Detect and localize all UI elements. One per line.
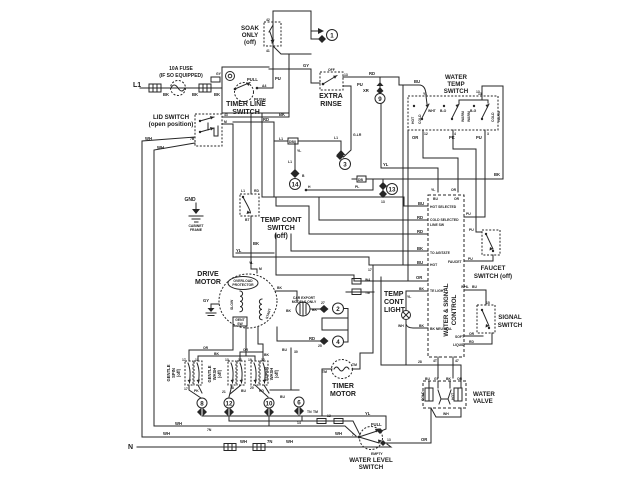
svg-text:BU: BU bbox=[417, 260, 423, 265]
wire OR to valve bbox=[386, 408, 431, 443]
svg-text:RD: RD bbox=[417, 215, 423, 220]
wire RD staircase 2 bbox=[319, 197, 428, 220]
wire BK lid to soak vertical bbox=[222, 54, 289, 117]
svg-text:BK: BK bbox=[419, 287, 424, 291]
svg-text:WHL: WHL bbox=[461, 285, 469, 289]
svg-text:14: 14 bbox=[292, 182, 299, 189]
svg-text:OR: OR bbox=[421, 437, 427, 442]
node 14 connector bbox=[288, 141, 305, 190]
gent sw contact bbox=[233, 317, 247, 326]
svg-text:VALVE: VALVE bbox=[473, 398, 493, 405]
connector plug 1 bbox=[311, 28, 338, 43]
svg-text:BU: BU bbox=[414, 79, 420, 84]
wire PU from terminal 3 bbox=[464, 130, 485, 217]
connector CO-1 bbox=[149, 84, 161, 92]
svg-text:OFF: OFF bbox=[328, 68, 335, 72]
wire WH inner bus bbox=[154, 426, 356, 436]
svg-text:HOT: HOT bbox=[430, 263, 438, 267]
svg-text:PU: PU bbox=[275, 76, 281, 81]
svg-text:(open position): (open position) bbox=[149, 121, 194, 128]
wire PK from terminal 4 bbox=[453, 130, 476, 232]
timer shaft (double circle) bbox=[226, 72, 235, 81]
wire 13 row with DB connector bbox=[357, 176, 366, 182]
svg-text:13: 13 bbox=[478, 92, 482, 96]
wire TM short row with DB connector bbox=[346, 291, 374, 293]
wire VL stub bbox=[236, 252, 274, 254]
svg-text:LIQUID: LIQUID bbox=[453, 343, 465, 347]
svg-text:SWITCH: SWITCH bbox=[444, 88, 469, 95]
svg-text:MOTOR: MOTOR bbox=[330, 391, 356, 398]
temp cont light lamp bbox=[402, 311, 411, 320]
svg-text:(IF SO EQUIPPED): (IF SO EQUIPPED) bbox=[159, 73, 203, 79]
node 3 connector bbox=[336, 141, 351, 170]
svg-text:3: 3 bbox=[487, 132, 489, 136]
svg-text:M: M bbox=[224, 120, 227, 124]
svg-text:YL: YL bbox=[407, 295, 411, 299]
svg-text:RD: RD bbox=[417, 229, 423, 234]
svg-text:L1: L1 bbox=[334, 136, 338, 140]
gentle wash switch pair bbox=[225, 358, 245, 385]
signal leads bbox=[464, 335, 483, 337]
svg-text:WHT: WHT bbox=[428, 109, 437, 113]
svg-text:COLD SELECTED: COLD SELECTED bbox=[430, 218, 459, 222]
svg-text:YL: YL bbox=[236, 248, 242, 253]
svg-text:HOT: HOT bbox=[451, 392, 455, 400]
svg-text:17: 17 bbox=[184, 387, 188, 391]
svg-text:BK: BK bbox=[279, 112, 285, 117]
temp switch section 2 bbox=[440, 104, 471, 122]
svg-text:BU: BU bbox=[418, 201, 424, 206]
svg-text:OR: OR bbox=[457, 377, 463, 381]
wire 13 internal bus in water temp switch bbox=[459, 96, 488, 104]
wire BU to signal switch bbox=[464, 290, 486, 305]
svg-text:OR: OR bbox=[451, 188, 457, 192]
svg-text:RD: RD bbox=[309, 336, 315, 341]
svg-text:WH: WH bbox=[335, 431, 342, 436]
svg-text:YL: YL bbox=[383, 162, 389, 167]
svg-text:BK: BK bbox=[277, 286, 282, 290]
svg-text:12: 12 bbox=[424, 132, 428, 136]
ground GND cabinet frame bbox=[184, 197, 204, 232]
svg-text:A4: A4 bbox=[262, 84, 266, 88]
wire YL into motor top bbox=[256, 269, 258, 273]
water valve bbox=[421, 377, 466, 408]
svg-text:WH: WH bbox=[286, 439, 293, 444]
wire into temp cont switch bbox=[250, 113, 252, 194]
svg-text:SWITCH: SWITCH bbox=[267, 225, 295, 232]
svg-text:TEMP: TEMP bbox=[447, 81, 464, 88]
svg-text:FULL: FULL bbox=[371, 422, 382, 427]
svg-text:PK: PK bbox=[449, 135, 455, 140]
svg-text:TIMER LINE: TIMER LINE bbox=[226, 101, 266, 108]
svg-text:XR: XR bbox=[363, 88, 369, 93]
svg-text:WH: WH bbox=[145, 136, 152, 141]
svg-text:SWITCH: SWITCH bbox=[498, 322, 523, 329]
wire RD staircase 3 bbox=[276, 197, 428, 234]
svg-text:(off): (off) bbox=[217, 369, 222, 378]
motor frame ground GY bbox=[203, 298, 219, 316]
svg-text:21: 21 bbox=[222, 390, 226, 394]
timer line switch enclosure bbox=[222, 67, 289, 113]
svg-text:LINE SW: LINE SW bbox=[430, 223, 445, 227]
wire BK to car export motor bbox=[275, 291, 297, 301]
svg-text:L1: L1 bbox=[241, 189, 245, 193]
lid switch bbox=[190, 114, 222, 146]
svg-text:WH: WH bbox=[443, 412, 449, 416]
svg-text:FRAME: FRAME bbox=[190, 228, 203, 232]
svg-text:BK: BK bbox=[419, 324, 424, 328]
svg-text:COLD: COLD bbox=[421, 391, 425, 401]
svg-text:1: 1 bbox=[330, 33, 334, 40]
lamp leads bbox=[406, 291, 428, 311]
svg-text:PULL: PULL bbox=[247, 77, 258, 82]
svg-text:GY: GY bbox=[216, 72, 222, 76]
svg-text:19: 19 bbox=[248, 358, 252, 362]
node 10 connector bbox=[264, 398, 274, 426]
svg-text:BK: BK bbox=[163, 92, 169, 97]
svg-text:WH: WH bbox=[157, 145, 164, 150]
wire PU timer to soak bbox=[272, 47, 274, 88]
svg-text:M: M bbox=[259, 267, 262, 271]
svg-text:B-G: B-G bbox=[470, 109, 477, 113]
wire BU-30 drop bbox=[290, 348, 292, 390]
svg-text:BU: BU bbox=[282, 348, 287, 352]
svg-text:12: 12 bbox=[327, 414, 331, 418]
wire BU 30 link bbox=[270, 389, 299, 391]
svg-text:GY: GY bbox=[303, 63, 309, 68]
soak switch blade bbox=[269, 25, 273, 32]
svg-text:BU: BU bbox=[241, 389, 246, 393]
svg-text:10: 10 bbox=[266, 401, 273, 408]
svg-text:13: 13 bbox=[225, 358, 229, 362]
svg-text:WH: WH bbox=[175, 421, 182, 426]
svg-text:(off): (off) bbox=[274, 233, 288, 240]
svg-text:SWITCH: SWITCH bbox=[232, 109, 260, 116]
wire 17 drop to timer motor bbox=[360, 266, 373, 369]
fuse 10A (if so equipped) bbox=[159, 66, 203, 96]
super wash switch pair bbox=[248, 358, 268, 385]
svg-text:CONTROL: CONTROL bbox=[451, 294, 458, 325]
wire BU to water temp switch bbox=[399, 77, 427, 104]
wire YL bus bbox=[202, 416, 386, 431]
svg-text:BU: BU bbox=[433, 197, 438, 201]
soak only switch (off) bbox=[273, 11, 311, 47]
svg-text:YL: YL bbox=[297, 149, 301, 153]
svg-text:BK: BK bbox=[494, 172, 500, 177]
wire BK temp cont to motor bbox=[251, 216, 257, 273]
svg-text:SOAK: SOAK bbox=[241, 25, 259, 32]
svg-text:OR: OR bbox=[416, 275, 422, 280]
svg-text:YL: YL bbox=[249, 261, 253, 265]
svg-text:RINSE: RINSE bbox=[320, 101, 342, 108]
temp switch section 1 bbox=[411, 104, 437, 124]
wire YL to control box bbox=[381, 104, 438, 192]
node 13 connector bbox=[379, 179, 398, 204]
wire OR second row bbox=[240, 327, 263, 361]
svg-text:TIMER: TIMER bbox=[332, 383, 354, 390]
svg-text:PU: PU bbox=[357, 82, 363, 87]
svg-text:27: 27 bbox=[321, 301, 325, 305]
svg-text:MOTOR: MOTOR bbox=[195, 279, 221, 286]
wire WH outer bus bbox=[142, 436, 357, 438]
svg-text:MODELS ONLY: MODELS ONLY bbox=[292, 300, 317, 304]
valve bottom WH loop bbox=[431, 408, 461, 417]
node 2 connector bbox=[310, 301, 344, 314]
svg-text:BK: BK bbox=[253, 241, 259, 246]
svg-text:25: 25 bbox=[318, 344, 322, 348]
svg-text:SLOW: SLOW bbox=[230, 299, 234, 310]
svg-text:13: 13 bbox=[387, 438, 391, 442]
svg-text:LID SWITCH: LID SWITCH bbox=[153, 114, 190, 121]
svg-text:BK NEUTRAL: BK NEUTRAL bbox=[430, 327, 452, 331]
svg-text:47: 47 bbox=[455, 359, 459, 363]
svg-text:6: 6 bbox=[297, 400, 301, 407]
svg-text:14: 14 bbox=[297, 421, 301, 425]
timer motor leads bbox=[322, 369, 332, 416]
svg-text:GND: GND bbox=[184, 197, 196, 203]
svg-text:HOT SELECTED: HOT SELECTED bbox=[430, 205, 457, 209]
temp cont switch bbox=[240, 189, 259, 222]
bottom leads to connectors bbox=[189, 385, 202, 398]
svg-text:TE LIGHT: TE LIGHT bbox=[430, 289, 446, 293]
wire RD extra rinse top out bbox=[343, 76, 399, 78]
svg-text:N: N bbox=[128, 444, 133, 451]
svg-text:PL: PL bbox=[355, 185, 359, 189]
timer line switch contact bbox=[234, 77, 273, 102]
svg-text:L1: L1 bbox=[279, 137, 283, 141]
overload protector bbox=[228, 277, 258, 290]
control box bottom leads bbox=[438, 357, 453, 378]
extra rinse switch bbox=[320, 68, 348, 90]
svg-text:G-LR: G-LR bbox=[353, 133, 362, 137]
svg-text:W4: W4 bbox=[365, 278, 370, 282]
svg-text:RD: RD bbox=[263, 117, 269, 122]
svg-text:7N: 7N bbox=[267, 439, 272, 444]
wire BK top row bbox=[198, 327, 255, 361]
svg-text:17: 17 bbox=[368, 268, 372, 272]
svg-text:WATER: WATER bbox=[473, 391, 495, 398]
wire OR staircase 6 with DB connector bbox=[276, 234, 428, 281]
svg-text:(off): (off) bbox=[274, 369, 279, 378]
wire long vertical pair bbox=[402, 85, 404, 265]
wire BU staircase bbox=[262, 113, 428, 206]
svg-text:13: 13 bbox=[389, 187, 396, 194]
svg-text:BK: BK bbox=[264, 353, 269, 357]
svg-text:WH: WH bbox=[398, 324, 404, 328]
svg-text:WATER LEVEL: WATER LEVEL bbox=[349, 457, 393, 464]
svg-text:WATER: WATER bbox=[445, 74, 467, 81]
svg-text:COLD: COLD bbox=[418, 114, 422, 124]
node 6 connector bbox=[294, 397, 312, 425]
svg-text:12: 12 bbox=[226, 401, 233, 408]
wire PU extra rinse bottom out to node 3 bbox=[343, 86, 351, 157]
svg-text:BK: BK bbox=[417, 246, 423, 251]
svg-text:BK: BK bbox=[192, 92, 198, 97]
svg-text:(off): (off) bbox=[176, 368, 181, 377]
water and signal control box bbox=[428, 195, 464, 357]
svg-text:SW: SW bbox=[237, 322, 243, 326]
svg-text:FAUCET: FAUCET bbox=[448, 260, 462, 264]
svg-text:TM: TM bbox=[313, 410, 318, 414]
wire BU staircase 5 bbox=[233, 253, 428, 265]
svg-text:TO AGITATE: TO AGITATE bbox=[430, 251, 451, 255]
node 4 connector bbox=[277, 327, 344, 348]
svg-text:BU: BU bbox=[472, 285, 477, 289]
svg-text:YL: YL bbox=[431, 188, 435, 192]
wire lid to left bundle bbox=[222, 124, 233, 253]
svg-text:41: 41 bbox=[266, 49, 270, 53]
svg-text:BU: BU bbox=[280, 395, 285, 399]
svg-text:DRIVE: DRIVE bbox=[197, 271, 219, 278]
motor windings bbox=[240, 291, 243, 312]
svg-text:TEMP CONT: TEMP CONT bbox=[260, 217, 302, 224]
svg-text:13: 13 bbox=[344, 73, 348, 77]
svg-text:17: 17 bbox=[182, 358, 186, 362]
wire BK staircase 4 bbox=[291, 234, 428, 251]
wire GY timer to extra rinse bbox=[269, 69, 320, 83]
svg-text:8: 8 bbox=[200, 401, 204, 408]
wire BK right riser bbox=[482, 86, 503, 179]
car export models motor bbox=[286, 296, 317, 316]
svg-text:7N: 7N bbox=[207, 428, 212, 432]
svg-text:13: 13 bbox=[381, 200, 385, 204]
svg-text:3: 3 bbox=[343, 162, 347, 169]
wire OR from terminal 12 bbox=[423, 130, 458, 192]
svg-text:OR: OR bbox=[412, 135, 418, 140]
svg-text:PU: PU bbox=[469, 228, 474, 232]
svg-text:20: 20 bbox=[250, 386, 254, 390]
node 12 connector bbox=[224, 398, 234, 421]
svg-text:15: 15 bbox=[486, 301, 490, 305]
svg-text:BK: BK bbox=[214, 352, 219, 356]
wire H-PL row bbox=[305, 189, 308, 192]
node 9 connector bbox=[375, 77, 385, 104]
connector CO-2 bbox=[199, 84, 211, 92]
wire from RD corner bbox=[233, 122, 274, 197]
water level switch bbox=[358, 422, 386, 456]
node 8 connector bbox=[197, 398, 207, 416]
svg-text:SWITCH (off): SWITCH (off) bbox=[474, 273, 512, 280]
svg-text:OR: OR bbox=[203, 346, 209, 350]
svg-text:PU: PU bbox=[468, 257, 473, 261]
svg-text:BK: BK bbox=[446, 377, 451, 381]
svg-text:42: 42 bbox=[266, 18, 270, 22]
svg-text:9: 9 bbox=[378, 96, 382, 103]
svg-text:GY: GY bbox=[203, 298, 209, 303]
svg-text:ONLY: ONLY bbox=[242, 32, 259, 39]
wire WH inner left border bbox=[154, 143, 195, 426]
wire WH outer left border bbox=[142, 137, 195, 437]
svg-text:PROTECTOR: PROTECTOR bbox=[232, 283, 254, 287]
svg-text:L1: L1 bbox=[288, 160, 292, 164]
svg-text:4: 4 bbox=[336, 339, 340, 346]
svg-text:TEMP: TEMP bbox=[384, 291, 404, 298]
wire to water valve row bbox=[381, 277, 461, 381]
timer motor bbox=[322, 360, 357, 379]
svg-text:10A FUSE: 10A FUSE bbox=[169, 66, 193, 72]
svg-text:WH: WH bbox=[240, 439, 247, 444]
svg-text:2: 2 bbox=[336, 306, 340, 313]
svg-text:WH: WH bbox=[163, 431, 170, 436]
svg-text:DB: DB bbox=[289, 140, 294, 144]
svg-text:SOFT: SOFT bbox=[455, 335, 465, 339]
svg-text:RD: RD bbox=[254, 189, 259, 193]
water temp switch body bbox=[408, 96, 498, 130]
svg-text:OR: OR bbox=[469, 332, 475, 336]
svg-text:BK: BK bbox=[286, 309, 291, 313]
svg-text:SWITCH: SWITCH bbox=[359, 464, 384, 471]
svg-text:PU: PU bbox=[476, 135, 482, 140]
svg-text:Y1: Y1 bbox=[423, 92, 427, 96]
svg-text:B-O: B-O bbox=[440, 109, 447, 113]
svg-text:WARM: WARM bbox=[461, 111, 465, 122]
svg-text:TM: TM bbox=[352, 363, 357, 367]
connector DB on timer bbox=[211, 72, 222, 82]
svg-text:28: 28 bbox=[418, 360, 422, 364]
svg-text:30: 30 bbox=[294, 350, 298, 354]
svg-text:RD: RD bbox=[259, 389, 264, 393]
svg-text:PU: PU bbox=[466, 212, 471, 216]
svg-text:TN: TN bbox=[307, 410, 312, 414]
svg-text:OR: OR bbox=[454, 197, 460, 201]
wire L1 row with DB connector bbox=[274, 140, 288, 142]
signal switch bbox=[477, 301, 495, 333]
faucet leads bbox=[476, 231, 482, 233]
wire OR top row bbox=[189, 326, 233, 361]
svg-text:(off): (off) bbox=[244, 39, 256, 46]
svg-text:SIGNAL: SIGNAL bbox=[498, 314, 522, 321]
wire TN bus with DB connectors bbox=[229, 421, 360, 435]
svg-text:DB: DB bbox=[358, 178, 363, 182]
svg-text:18: 18 bbox=[230, 386, 234, 390]
svg-text:7: 7 bbox=[352, 433, 354, 437]
wire L1 feed bbox=[140, 87, 222, 89]
svg-text:WARM: WARM bbox=[497, 111, 501, 122]
svg-text:BU: BU bbox=[425, 377, 430, 381]
svg-text:GY: GY bbox=[434, 377, 440, 381]
svg-text:YL: YL bbox=[365, 411, 371, 416]
drive motor body bbox=[219, 274, 277, 328]
svg-text:43: 43 bbox=[224, 113, 228, 117]
svg-text:CONT: CONT bbox=[384, 299, 405, 306]
svg-text:TM: TM bbox=[365, 291, 370, 295]
svg-text:EXTRA: EXTRA bbox=[319, 93, 343, 100]
svg-text:EMPTY: EMPTY bbox=[371, 452, 383, 456]
faucet switch bbox=[482, 230, 500, 255]
svg-text:BK: BK bbox=[214, 92, 220, 97]
svg-text:HOT: HOT bbox=[411, 116, 415, 124]
svg-text:RD: RD bbox=[369, 71, 375, 76]
svg-text:TM: TM bbox=[322, 370, 327, 374]
temp switch section 3 bbox=[470, 104, 501, 122]
bracket wiring bbox=[344, 309, 348, 343]
svg-text:OR: OR bbox=[243, 348, 249, 352]
gentle spin switch pair bbox=[182, 358, 202, 385]
svg-text:RD: RD bbox=[469, 340, 474, 344]
svg-text:COLD: COLD bbox=[491, 112, 495, 122]
svg-text:PK: PK bbox=[194, 389, 199, 393]
svg-text:FAUCET: FAUCET bbox=[481, 265, 506, 272]
